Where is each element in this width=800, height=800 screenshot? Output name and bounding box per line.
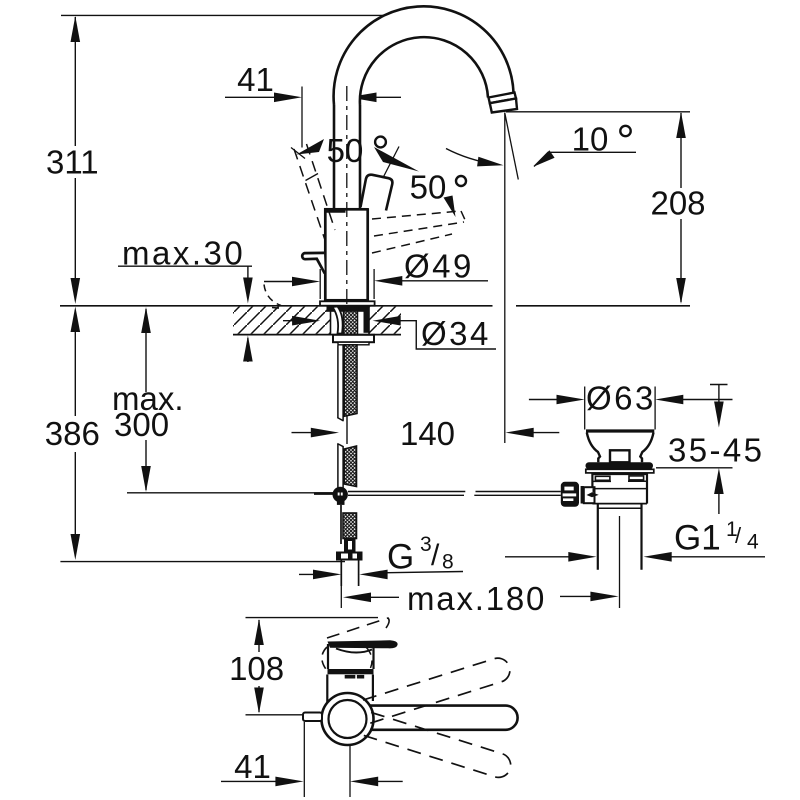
dimension 41 top right arrowhead <box>349 93 377 103</box>
svg-text:4: 4 <box>747 531 759 554</box>
max.300 reference line (pop-up rod level) <box>127 492 333 494</box>
drain dome top cap <box>586 429 654 432</box>
O34 leader tail <box>394 321 496 349</box>
dimension max.300 bottom arrowhead <box>141 466 151 492</box>
drain side stem <box>584 487 595 503</box>
svg-text:300: 300 <box>114 406 169 443</box>
mounting nut step <box>338 342 369 345</box>
max180 left extension line <box>340 586 342 608</box>
dimension O34 left line <box>283 320 302 322</box>
108 down arrowhead <box>254 688 264 714</box>
G3/8 left arrowhead <box>313 570 341 580</box>
rod stub (top view) <box>303 713 322 722</box>
dimension 311 bottom arrowhead <box>71 278 81 304</box>
svg-text:50: 50 <box>410 169 447 206</box>
faucet body top-left dark bar <box>326 208 346 213</box>
pop-up rod sheath lower <box>337 444 339 488</box>
swivel circle inner <box>329 700 367 738</box>
max.30 up arrowhead <box>243 336 253 362</box>
dimension max.300 top arrowhead <box>141 307 151 333</box>
O49 right arrowhead <box>374 276 402 286</box>
spout inner arc <box>360 37 488 105</box>
svg-text:/: / <box>735 523 742 548</box>
drain body bottom edge <box>592 503 647 505</box>
swivel arc arrow curve <box>446 149 496 165</box>
dashed arc right of body <box>366 647 372 668</box>
pop-up rod in gap <box>346 416 348 445</box>
knob collar bar <box>579 484 581 505</box>
O34 left arrowhead <box>292 316 320 326</box>
spout swivel dashed line left B <box>307 144 336 230</box>
svg-text:41: 41 <box>234 748 271 785</box>
spout bar dashed lower <box>364 712 514 780</box>
drain tailpipe left <box>597 504 599 570</box>
top reference line (spout top level) <box>61 14 402 16</box>
drain washer (dark) <box>586 462 654 469</box>
35-45 up arrowhead <box>714 468 724 494</box>
handle lowered dashed end cap <box>461 211 466 222</box>
dimension 311 vertical line <box>74 17 76 300</box>
upper body sides (top view) <box>327 644 329 669</box>
spout tip vertical extension line <box>504 113 506 444</box>
O49 right extension line <box>373 269 375 299</box>
curved hose in hole <box>333 307 343 334</box>
pop-up rod ball joint <box>333 487 348 502</box>
dimension 386 vertical line <box>74 310 76 556</box>
O63 left line <box>529 399 562 401</box>
dimension 35-45 top tick <box>710 384 728 386</box>
svg-text:max.180: max.180 <box>407 580 546 617</box>
hole right edge <box>368 306 370 334</box>
spout outer arc <box>334 6 514 105</box>
41 bottom right arrowhead <box>350 777 378 787</box>
svg-text:G: G <box>387 538 414 577</box>
rod stub left of ball <box>314 492 334 495</box>
dimension 41 top left arrowhead <box>274 93 302 103</box>
counter hatch left <box>233 307 331 334</box>
drain dome left side taper <box>587 433 600 463</box>
41 bottom left extension line <box>303 722 305 797</box>
41 bottom right extension line <box>349 746 351 797</box>
dimension G3/8 left arrow line <box>299 573 322 575</box>
108 up arrowhead <box>254 619 264 645</box>
140 right line <box>527 432 559 434</box>
rod below ball <box>337 501 345 505</box>
max.30 drop line <box>247 266 249 281</box>
O63 right line <box>678 399 733 401</box>
bottom reference line <box>246 714 319 716</box>
max.30 down arrowhead <box>243 278 253 304</box>
handle hook (side view lever) <box>302 253 325 274</box>
swivel circle outer <box>322 693 374 745</box>
O34 right arrowhead <box>373 316 401 326</box>
dashed spout aerator tick left <box>306 174 319 181</box>
O49 tail underline <box>396 280 488 282</box>
O63 left arrowhead <box>557 395 585 405</box>
35-45 reference line <box>656 467 733 469</box>
svg-text:386: 386 <box>45 415 100 452</box>
drain dome right side taper <box>640 433 653 463</box>
faucet body <box>325 209 367 300</box>
O63 right arrowhead <box>655 395 683 405</box>
G3/8 tail underline <box>381 572 463 573</box>
drain body top edge <box>592 473 647 475</box>
dimension O49 left line <box>264 281 300 283</box>
41 bottom left arrowhead <box>275 777 303 787</box>
horizontal pop-up rod segment 1 <box>348 491 465 493</box>
braid hose segment B <box>344 446 356 487</box>
svg-text:8: 8 <box>442 551 454 574</box>
top reference line <box>246 617 379 619</box>
drain body lower edge <box>592 488 647 490</box>
max.180 left line <box>365 596 399 598</box>
drain body sides <box>591 473 593 504</box>
svg-text:Ø34: Ø34 <box>421 315 491 352</box>
spout bar solid (top view) <box>370 706 518 730</box>
spout tilted 10deg line <box>505 113 519 180</box>
svg-text:108: 108 <box>229 650 284 687</box>
counter top line right <box>516 305 690 307</box>
max.180 right arrowhead <box>590 592 618 602</box>
dimension 41 extension line <box>301 87 303 148</box>
hole left edge <box>330 306 332 334</box>
body dark band <box>328 669 374 674</box>
handle lowered dashed line 1 <box>372 211 460 219</box>
spout gooseneck body fill <box>334 6 514 208</box>
41 bottom right line <box>372 780 403 782</box>
svg-text:311: 311 <box>46 144 99 181</box>
spout outer left line <box>333 105 336 208</box>
G1 1/4 left arrow line <box>505 556 578 558</box>
dashed handle left arc <box>322 647 327 670</box>
drain tailpipe inner line <box>598 507 642 509</box>
140 right arrowhead <box>506 428 534 438</box>
50deg first left arrowhead <box>297 139 325 155</box>
drain tailpipe right <box>640 504 642 570</box>
counter hatch right <box>369 307 401 334</box>
drain centerline extension <box>619 516 621 608</box>
spout swivel solid thin line left <box>291 148 305 159</box>
handle lever raised (solid) <box>361 175 393 211</box>
svg-text:208: 208 <box>650 185 705 222</box>
dimension 208 vertical line <box>680 113 682 302</box>
body inner dark dashes <box>345 675 356 679</box>
svg-text:3: 3 <box>420 533 432 556</box>
drain body inner line right <box>628 480 647 482</box>
swivel arc arrowhead <box>477 157 503 167</box>
10deg leader arrowhead <box>534 150 555 166</box>
35-45 down arrowhead <box>714 402 724 428</box>
braid hose segment C <box>343 513 357 539</box>
handle lowered dashed line 2 <box>374 222 464 236</box>
max.30 lower line <box>247 338 249 362</box>
reference line spout outlet level <box>506 111 690 113</box>
O63 right extension line <box>654 387 656 430</box>
shank dark band under plate <box>327 306 369 312</box>
drain body inner line left <box>592 480 611 482</box>
O49 left extension line <box>319 269 321 299</box>
dimension 41 top line right <box>370 96 401 98</box>
140 left line <box>292 432 319 434</box>
dimension 386 bottom arrowhead <box>71 534 81 560</box>
svg-text:140: 140 <box>400 415 455 452</box>
G1 1/4 underline with arrow <box>660 556 765 558</box>
drain body slot right <box>629 476 644 480</box>
spout swivel solid thin line right <box>368 147 399 208</box>
svg-text:Ø63: Ø63 <box>586 380 656 417</box>
dimension 311 top arrowhead <box>71 16 81 42</box>
braid segment in hole <box>344 306 358 334</box>
hose end nut G3/8 <box>336 552 363 561</box>
spout inner left line <box>359 105 362 208</box>
G3/8 right arrowhead <box>359 570 387 580</box>
connector tube G3/8 <box>340 561 342 587</box>
black bar in hole <box>364 306 369 333</box>
50deg first right arrowhead <box>374 147 419 172</box>
counter bottom line <box>233 334 401 336</box>
svg-text:/: / <box>431 539 440 572</box>
35-45 top line <box>718 385 720 407</box>
spout swivel dashed line left A <box>294 149 325 240</box>
svg-text:Ø49: Ø49 <box>404 248 474 285</box>
dashed spout tip arc left <box>264 285 281 306</box>
10deg leader line <box>534 152 636 166</box>
drain boss <box>610 450 630 462</box>
dashed spout tip line left <box>272 308 284 309</box>
35-45 bottom line <box>718 490 720 514</box>
dimension max.300 vertical line <box>145 309 147 490</box>
solid handle paddle (top view) <box>328 640 398 648</box>
svg-text:35-45: 35-45 <box>668 432 764 469</box>
max.30 underline <box>118 265 252 267</box>
svg-text:41: 41 <box>237 61 274 98</box>
rod tip in stem <box>587 492 599 497</box>
41 bottom left line <box>221 780 284 782</box>
braid hose segment A <box>344 345 357 417</box>
max.180 left arrowhead <box>343 593 371 603</box>
pop-up rod sheath upper <box>337 346 339 419</box>
paddle underside curve <box>336 649 372 653</box>
dimension 108 line <box>258 620 260 712</box>
max.180 right line <box>560 595 597 597</box>
knurled knob <box>561 482 579 507</box>
bottom reference line (hose end level) <box>60 561 345 563</box>
lower body sides (top view) <box>326 675 328 707</box>
spout aerator band <box>489 93 517 104</box>
drain body slot left <box>595 476 610 480</box>
handle lowered dashed line 3 <box>372 234 452 253</box>
spout centerline <box>346 86 348 304</box>
50deg second arrowhead <box>444 196 456 218</box>
spout outlet tip <box>490 99 517 113</box>
140 left arrowhead <box>311 428 339 438</box>
dashed handle paddle (top view) <box>327 618 389 638</box>
hose crimp sleeve <box>344 539 356 552</box>
drain washer lower <box>586 469 654 473</box>
dimension 208 top arrowhead <box>676 112 686 138</box>
horizontal pop-up rod segment 2 <box>476 491 561 493</box>
svg-text:50: 50 <box>327 132 364 169</box>
O63 left extension line <box>584 387 586 430</box>
spout bar dashed upper <box>363 655 513 723</box>
mounting nut <box>333 335 374 342</box>
svg-text:G1: G1 <box>674 519 721 558</box>
dimension 208 bottom arrowhead <box>676 278 686 304</box>
O49 left arrowhead <box>292 277 320 287</box>
dimension 41 top line left <box>225 96 281 98</box>
counter top line left <box>60 305 493 307</box>
base plate <box>320 301 375 305</box>
dimension 386 top arrowhead <box>71 307 81 333</box>
rod tip tick <box>592 488 594 492</box>
